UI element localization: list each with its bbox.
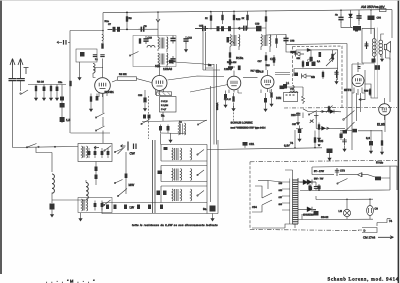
capacitor C36 <box>295 73 299 77</box>
svg-text:C12: C12 <box>188 37 193 40</box>
capacitor C6b <box>60 117 65 122</box>
arrow into IF1 <box>156 19 160 22</box>
wire pilot left <box>302 196 316 220</box>
capacitor C6 stack <box>61 85 63 124</box>
capacitor C9 <box>139 27 147 32</box>
svg-text:C48: C48 <box>290 40 295 43</box>
right vertical x207 <box>206 145 208 214</box>
capacitor C61 <box>309 187 313 190</box>
wire mains step <box>358 219 391 230</box>
mains box <box>362 228 377 233</box>
capacitor C3a with arrow <box>57 41 70 44</box>
diode D3 black <box>330 110 334 114</box>
capacitor C11 <box>170 36 175 44</box>
node dots heater <box>294 147 296 149</box>
diode D4 black <box>322 126 326 130</box>
wire drop x392 speaker feed <box>391 10 393 38</box>
svg-text:EL95: EL95 <box>377 123 385 127</box>
svg-text:230: 230 <box>291 113 296 117</box>
capacitor C39 top <box>343 130 348 134</box>
lower osc coil L13 <box>82 199 88 211</box>
mains arrow <box>378 236 394 239</box>
switch arm b <box>115 180 123 184</box>
tube V3 12AU6 <box>227 71 241 93</box>
svg-text:R26: R26 <box>364 90 369 93</box>
ground C40 <box>343 146 346 152</box>
svg-text:74: 74 <box>389 219 393 223</box>
vertical x295 <box>294 130 296 148</box>
transformer right wires <box>293 178 303 228</box>
capacitor C46 <box>107 148 109 158</box>
resistor R20 h <box>290 51 295 53</box>
wire bus drop V1 anode <box>102 13 104 43</box>
feedback loop wire <box>362 28 374 63</box>
ground between coils <box>381 55 383 57</box>
capacitor C16b above V3 <box>238 66 241 71</box>
svg-text:C73: C73 <box>340 170 345 173</box>
wire drop x222.5 <box>222 11 224 24</box>
svg-text:C51: C51 <box>249 142 255 146</box>
svg-text:R 2,2M: R 2,2M <box>161 104 168 107</box>
arrow tuning <box>238 27 243 30</box>
wire j3 right <box>55 146 78 148</box>
svg-text:C19: C19 <box>255 23 260 26</box>
svg-text:C23: C23 <box>138 94 143 97</box>
ground input box <box>79 62 81 75</box>
wire top link to x214 <box>167 62 214 65</box>
switch arm a <box>115 149 123 153</box>
wire grid V1 <box>93 73 96 78</box>
resistor R16 <box>265 16 267 21</box>
CW resistor <box>164 147 168 150</box>
svg-text:6,3: 6,3 <box>366 136 370 140</box>
resistor R13 <box>233 15 235 20</box>
wire xfmr top <box>362 28 384 38</box>
circle k det <box>308 59 311 62</box>
capacitor C27 below V3 <box>225 91 227 95</box>
svg-text:C 17,5: C 17,5 <box>161 100 168 103</box>
svg-text:C10: C10 <box>148 37 153 40</box>
svg-text:25V: 25V <box>379 5 386 9</box>
wire box corner <box>203 68 220 70</box>
pilot lamp LN2 <box>367 199 374 219</box>
svg-text:C54: C54 <box>252 206 257 209</box>
svg-text:C9: C9 <box>375 208 379 211</box>
coil chain col x96 <box>95 162 97 167</box>
diode MA1 <box>349 14 353 18</box>
switch S1b lower <box>96 113 105 118</box>
capacitor C100 <box>302 113 304 119</box>
wire T3 bottom <box>233 66 235 68</box>
wire V3 to V4 <box>243 77 258 79</box>
resistor R3 <box>69 81 71 86</box>
dashed box detector <box>293 46 343 108</box>
switch S7 mains <box>377 219 387 226</box>
capacitor C5 <box>56 85 58 93</box>
selector wires <box>252 186 272 212</box>
ground R50 <box>329 153 331 155</box>
capacitor C45b <box>101 201 103 211</box>
fuse F1 <box>380 9 387 12</box>
lower coil box <box>78 198 112 213</box>
trimmer C3 <box>24 68 29 75</box>
arrow det <box>320 110 324 112</box>
AGC box <box>160 97 177 113</box>
ground under C43 <box>51 210 53 212</box>
svg-text:R15a 1M: R15a 1M <box>227 61 236 64</box>
switch S1a <box>21 90 29 95</box>
wire drop x266 <box>265 11 267 35</box>
capacitor C51 <box>244 142 246 148</box>
vertical x390 <box>389 58 391 102</box>
svg-text:9a: 9a <box>203 207 207 211</box>
capacitor C40 <box>342 138 347 146</box>
svg-text:LN: LN <box>339 210 342 213</box>
wire V5 lead col a <box>356 93 358 121</box>
svg-text:SCHAUB LORENZ: SCHAUB LORENZ <box>231 121 253 124</box>
LW caps <box>157 191 161 196</box>
svg-text:ECH81: ECH81 <box>105 90 115 94</box>
svg-text:Schaub Lorenz, mod. 9414: Schaub Lorenz, mod. 9414 <box>328 277 400 283</box>
resistor R25 <box>314 131 316 148</box>
band strip LW box <box>161 186 207 203</box>
svg-text:R6: R6 <box>129 17 133 20</box>
resistor R23 <box>302 60 304 68</box>
wire drop x359 <box>358 10 360 25</box>
resistor R24 <box>322 71 324 80</box>
dashed shaft below V2 <box>147 96 149 139</box>
capacitor C14 below V1 <box>96 94 98 101</box>
capacitor C50 electrolytic <box>353 26 361 31</box>
ground R27 <box>318 132 320 135</box>
svg-text:220: 220 <box>279 182 283 185</box>
wire drop x371 <box>370 10 372 34</box>
switch S2a left <box>141 120 150 125</box>
wire x127 to caps <box>95 68 103 73</box>
MW switch <box>198 170 205 175</box>
svg-text:6BT8: 6BT8 <box>344 88 352 92</box>
svg-text:C21: C21 <box>270 57 276 61</box>
tube V1 ECH81 <box>95 59 111 98</box>
svg-text:32+32: 32+32 <box>321 216 329 219</box>
wire L12 link <box>85 180 87 201</box>
capacitor C43 <box>50 204 55 210</box>
rect diode D5 <box>307 180 312 185</box>
potentiometer P1 <box>332 50 334 62</box>
CW coil <box>191 148 192 160</box>
speaker LS <box>384 42 390 53</box>
wire V1 leads down <box>99 92 107 98</box>
IF transformer T1 top coil assembly <box>158 36 168 52</box>
capacitor C20 blob <box>227 37 230 43</box>
svg-text:C.A.V.: C.A.V. <box>224 98 231 101</box>
resistor R7 <box>139 38 141 43</box>
plus cap C62 <box>314 211 319 216</box>
svg-text:6X4/EZ80: 6X4/EZ80 <box>303 214 314 217</box>
coil L8 loops <box>231 42 235 44</box>
tube V6 EL95 <box>379 98 391 120</box>
capacitor C31 <box>297 112 299 118</box>
capacitor C17 blob <box>228 26 231 31</box>
coil L1 <box>93 64 95 74</box>
wire drop x350.5 <box>350 10 352 27</box>
svg-text:C54: C54 <box>377 17 382 20</box>
wire L11 tap <box>52 199 85 201</box>
resistor R27 <box>318 123 320 133</box>
coil box outline <box>133 36 176 67</box>
svg-text:F.Vdc: F.Vdc <box>376 161 384 165</box>
wire fb right <box>368 167 390 191</box>
svg-text:12BA6: 12BA6 <box>163 67 172 71</box>
MW transformer <box>172 169 182 181</box>
wire det step <box>303 109 320 112</box>
capacitor C44b <box>94 201 96 211</box>
grid stopper R8 <box>112 80 117 82</box>
capacitor C8b <box>93 55 97 57</box>
capacitor C26 <box>167 125 169 134</box>
tube V5 6BT8 <box>352 68 364 95</box>
wire drop x247.5 <box>247 11 249 29</box>
wire box row1 <box>296 50 338 54</box>
wire drop x211 <box>210 12 212 30</box>
pilot lamp LN1 <box>343 199 350 219</box>
ground V3a <box>225 99 227 103</box>
cap C42 blob <box>353 129 358 133</box>
wire det col <box>315 112 317 129</box>
svg-text:R17 22k: R17 22k <box>251 70 260 73</box>
oscillator coil L5 <box>147 46 155 48</box>
wire drop x158 <box>157 12 159 36</box>
left coil box <box>78 144 112 162</box>
wire det out <box>286 46 299 52</box>
wire AM line right <box>195 27 266 30</box>
vertical x210.7 <box>210 86 212 202</box>
selector diag <box>268 181 282 190</box>
capacitor C33 <box>310 50 312 62</box>
osc coil L2 <box>82 146 88 158</box>
svg-text:R15a: R15a <box>236 56 244 60</box>
pot P3 <box>328 106 330 114</box>
svg-text:D: D <box>364 230 366 233</box>
svg-text:500mA: 500mA <box>216 102 219 110</box>
capacitor C15 <box>195 28 200 30</box>
wire under T6 <box>161 133 186 137</box>
node dot y147 <box>54 146 56 148</box>
wire HT supply bus top <box>103 10 392 13</box>
svg-text:50k: 50k <box>297 57 301 60</box>
svg-text:AM 250Vca: AM 250Vca <box>361 5 379 9</box>
antenna A1 <box>10 59 15 79</box>
resistor R18 below T4 <box>265 52 267 66</box>
svg-text:mod “WEEKEND 5T6” type 9414: mod “WEEKEND 5T6” type 9414 <box>231 126 267 129</box>
LW coil <box>191 189 192 201</box>
wire V5 lead col b <box>360 93 362 112</box>
capacitor C16 blobs <box>217 26 220 31</box>
coil L10 <box>293 86 295 92</box>
node j3 <box>54 146 56 148</box>
CW transformer <box>172 148 182 160</box>
chassis dash line <box>284 106 397 109</box>
ground below V1 <box>89 106 92 112</box>
antenna A2 <box>18 59 23 79</box>
node bus j1 <box>126 12 128 14</box>
capacitor C38 <box>340 132 342 141</box>
resistor R12 <box>221 15 223 20</box>
wire V5 leads down <box>352 88 365 94</box>
wire V2 leads down <box>156 90 164 95</box>
svg-text:R13: R13 <box>236 18 241 21</box>
diode D6 <box>307 207 312 212</box>
box 3a outline <box>203 30 206 70</box>
svg-text:0,1: 0,1 <box>317 60 321 63</box>
node j2 <box>126 29 128 31</box>
node dots hv row <box>309 190 311 192</box>
switch S9 upper <box>105 146 112 151</box>
ground lower box <box>80 213 82 216</box>
capacitor C41 <box>370 130 372 141</box>
CW switch <box>198 150 205 155</box>
MW resistor <box>158 171 163 175</box>
svg-text:CM 1744: CM 1744 <box>363 236 376 240</box>
svg-text:C2a: C2a <box>58 81 63 84</box>
wire V4 leads <box>261 90 270 94</box>
capacitor C34 plus <box>312 62 316 67</box>
shielded pair to V6 <box>375 28 378 99</box>
svg-text:127: 127 <box>279 196 283 199</box>
wire ant2 down <box>20 81 22 91</box>
capacitor C49 <box>356 13 361 21</box>
capacitor C82 <box>318 184 320 190</box>
DIN socket <box>284 93 298 102</box>
svg-text:. . · . “M . · . ”: . . · . “M . · . ” <box>46 279 96 283</box>
resistor R17 <box>276 35 278 48</box>
wire V6 cathode <box>384 115 386 132</box>
capacitor C19 big blob <box>256 26 262 32</box>
capacitor C60 <box>314 187 318 189</box>
resistor R1 <box>35 85 37 93</box>
capacitor C25 <box>160 125 162 134</box>
switch S2b right <box>198 120 207 125</box>
resistor R15 chain below T3 <box>229 50 231 66</box>
capacitor C44c upper box <box>88 148 90 158</box>
svg-text:R25: R25 <box>318 139 324 143</box>
wire AF feed y44 <box>286 44 347 45</box>
LW switch <box>198 191 205 196</box>
arrow det2 <box>327 127 330 129</box>
capacitor C35 in box <box>334 70 338 78</box>
svg-text:10a: 10a <box>155 64 160 68</box>
svg-text:4n: 4n <box>335 14 338 17</box>
pilot block bottom wire <box>302 218 373 220</box>
wire V3 leads <box>229 90 242 94</box>
svg-text:C7: C7 <box>108 23 112 26</box>
svg-text:CW: CW <box>130 152 135 156</box>
svg-text:C9: C9 <box>144 25 148 28</box>
svg-text:DIN: DIN <box>276 96 281 100</box>
resistor R21b below V4 <box>271 89 273 92</box>
wire sel top <box>258 180 268 182</box>
IF transformer T6 small <box>179 123 186 135</box>
wire AF line y121 <box>142 121 207 122</box>
node dot V1 col <box>102 30 104 32</box>
resistor R31 in box <box>319 52 322 57</box>
wire DIN top <box>280 87 303 89</box>
svg-text:LW: LW <box>130 206 135 210</box>
resistor R22 zigzag <box>302 87 305 104</box>
resistor screen box below V2 <box>157 92 172 96</box>
resistor R30 <box>375 177 381 181</box>
wire fb row <box>312 173 355 175</box>
pilot block top wire <box>316 198 373 200</box>
ground C31 <box>297 118 299 120</box>
dashed lead below V3 <box>233 106 235 121</box>
diode D1 in box <box>296 52 300 56</box>
svg-text:1k: 1k <box>242 17 245 20</box>
svg-text:R8 22k: R8 22k <box>119 73 127 76</box>
capacitor C47 <box>338 15 343 23</box>
svg-text:74: 74 <box>290 141 294 145</box>
ground T6 <box>169 137 172 143</box>
wire j3 down path <box>36 147 52 172</box>
capacitor C1 <box>9 79 17 81</box>
svg-text:tutte le resistenze da 0,5W se: tutte le resistenze da 0,5W se non diver… <box>132 224 218 227</box>
right vertical x218 <box>217 140 219 205</box>
capacitor C30b <box>283 84 287 89</box>
svg-text:C17: C17 <box>258 60 263 63</box>
resistor R11 <box>210 15 212 20</box>
svg-text:1k: 1k <box>205 17 208 20</box>
vertical x365 <box>364 70 366 100</box>
wire AGC diag <box>190 85 228 93</box>
diode MA2 <box>355 27 358 32</box>
IF transformer T4 <box>261 35 271 53</box>
resistor R4 below V1 <box>90 94 92 107</box>
wire y133 link <box>71 132 111 134</box>
wire V5 up <box>352 62 364 68</box>
common box bottom <box>102 203 218 214</box>
svg-text:5W - 7W: 5W - 7W <box>314 178 324 181</box>
switch S8 lower <box>104 200 111 205</box>
wire V2 to V3 <box>168 76 225 80</box>
wire box down <box>162 112 164 121</box>
feedback box outline <box>312 166 397 190</box>
capacitor C13 <box>170 56 175 64</box>
pot arrow P2 <box>326 58 334 66</box>
capacitor C54 <box>368 16 375 21</box>
resistor R28 <box>381 130 383 141</box>
MW coil <box>191 169 192 181</box>
band switch S1c <box>130 52 139 56</box>
capacitor C57 dark <box>374 65 380 70</box>
wire drop x127 <box>126 12 128 29</box>
LW transformer <box>172 189 182 201</box>
wire down to band <box>160 134 162 145</box>
vertical x352 <box>351 64 353 150</box>
wire HV top <box>315 182 317 186</box>
switch S6 <box>337 179 348 184</box>
coil L9 <box>290 92 298 93</box>
ground C37 <box>299 134 301 137</box>
coil L11 <box>52 174 54 193</box>
resistor R2 <box>50 85 52 93</box>
capacitor C18 <box>241 26 249 31</box>
wire v1 col down <box>102 93 104 143</box>
capacitor C28 below V4 <box>265 93 267 98</box>
wire y147 left <box>13 146 56 149</box>
wire y30 to V1 col <box>70 30 103 32</box>
wire V5 to V6 <box>365 84 379 98</box>
switch S4 <box>346 122 355 131</box>
